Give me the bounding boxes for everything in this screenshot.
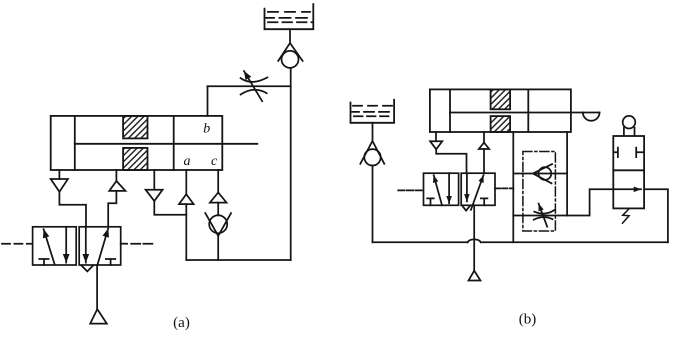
wire right trunk (a)	[290, 68, 292, 260]
port c triangle up	[210, 193, 227, 203]
label c	[211, 154, 218, 169]
port c stub (a)	[217, 170, 219, 193]
wire port2 to valve (a)	[108, 191, 116, 227]
valve V3 blocked ports	[613, 148, 644, 158]
valve V2 body (b)	[424, 173, 496, 205]
label (b)	[519, 312, 537, 328]
port 1 exhaust triangle down (b)	[430, 141, 442, 149]
wire throttle line (b)	[513, 189, 613, 215]
tank (b)	[351, 100, 395, 123]
port 1 stub (b)	[435, 132, 437, 141]
svg-text:b: b	[203, 121, 210, 136]
check valve CV1 (below tank a)	[278, 43, 302, 68]
check valve CV4 (in speed controller)	[533, 164, 552, 183]
port 3 stub (a)	[153, 170, 155, 190]
wire bottom rail (b) with bridge	[373, 239, 668, 242]
supply source triangle (a)	[90, 309, 107, 324]
tank (a)	[265, 4, 314, 29]
wire check valve line (b)	[513, 173, 567, 175]
throttle valve TV2	[534, 204, 554, 227]
wire port c to check valve CV2	[217, 203, 219, 216]
valve V2 right arrows	[467, 173, 484, 210]
supply source triangle (b)	[469, 271, 481, 281]
piston rod (b)	[450, 112, 600, 114]
cylinder (a) body	[51, 116, 223, 170]
svg-text:a: a	[184, 154, 191, 169]
wire port1 to valve (a)	[59, 192, 86, 227]
svg-text:c: c	[211, 154, 218, 169]
port 2 triangle up	[109, 181, 125, 191]
wire tank(a) to check valve	[289, 29, 291, 43]
label b	[203, 121, 210, 136]
wire supply (a)	[96, 265, 98, 309]
valve V1 left blocked port T	[39, 259, 48, 265]
wire bottom line (a)	[186, 259, 290, 261]
pilot line right (b)	[495, 187, 513, 189]
port 2 wire (b)	[483, 132, 485, 143]
pilot line right (a)	[121, 243, 153, 245]
label (a)	[173, 315, 190, 331]
pilot line left (b)	[398, 189, 423, 191]
svg-text:(b): (b)	[519, 312, 537, 328]
valve V2 left arrows	[434, 173, 449, 205]
exhaust triangle below valve V1	[81, 266, 93, 272]
port 2 stub (a)	[115, 170, 117, 181]
rod end cup (b)	[583, 113, 600, 121]
valve V2 right blocked port T	[481, 198, 488, 205]
cylinder (b) body	[430, 89, 571, 132]
wire CV2 down	[217, 236, 219, 260]
wire chamber line x567 (b)	[566, 132, 568, 216]
wire chamber line x513 (b)	[512, 132, 514, 242]
wire port1 to valve V2	[436, 149, 466, 173]
check valve CV2	[205, 213, 231, 236]
port a triangle up	[179, 194, 194, 204]
valve V3 body (roller limit valve)	[613, 136, 644, 208]
wire port2 down to valve V2	[483, 149, 485, 173]
wire port a down	[185, 204, 187, 260]
valve V3 return spring	[623, 208, 630, 223]
valve V3 roller actuator	[623, 116, 636, 136]
port 2 triangle up (b)	[479, 143, 489, 149]
piston (a) hatched	[123, 116, 147, 170]
port 1 exhaust triangle down	[51, 179, 68, 192]
wire supply riser (b)	[473, 205, 475, 270]
speed controller enclosure	[523, 152, 556, 232]
svg-text:(a): (a)	[173, 315, 190, 331]
exhaust triangle below valve V2	[462, 206, 470, 211]
wire port3 to node a line	[154, 201, 186, 215]
port 1 stub (a)	[58, 170, 60, 179]
valve V2 left blocked port T	[427, 198, 434, 205]
wire riser to port b (a)	[207, 86, 209, 116]
valve V1 left arrows	[44, 227, 67, 265]
piston (b) hatched	[491, 89, 511, 132]
throttle valve TV1	[241, 71, 268, 101]
valve V3 flow arrow	[613, 188, 641, 190]
wire CV3 down to rail	[372, 166, 374, 243]
wire throttle branch (a)	[208, 85, 291, 87]
valve V1 right blocked port T	[106, 259, 115, 265]
wire tank(b) to check valve	[372, 123, 374, 141]
piston rod (a)	[75, 143, 257, 145]
check valve CV3	[360, 141, 384, 166]
port a stub (a)	[185, 170, 187, 194]
label a	[184, 154, 191, 169]
valve V1 body (a)	[33, 227, 121, 265]
pilot line left (a)	[2, 243, 33, 245]
port 3 exhaust triangle down	[146, 190, 163, 201]
wire valve V3 output loop	[644, 189, 668, 242]
valve V1 right arrows	[86, 227, 108, 265]
